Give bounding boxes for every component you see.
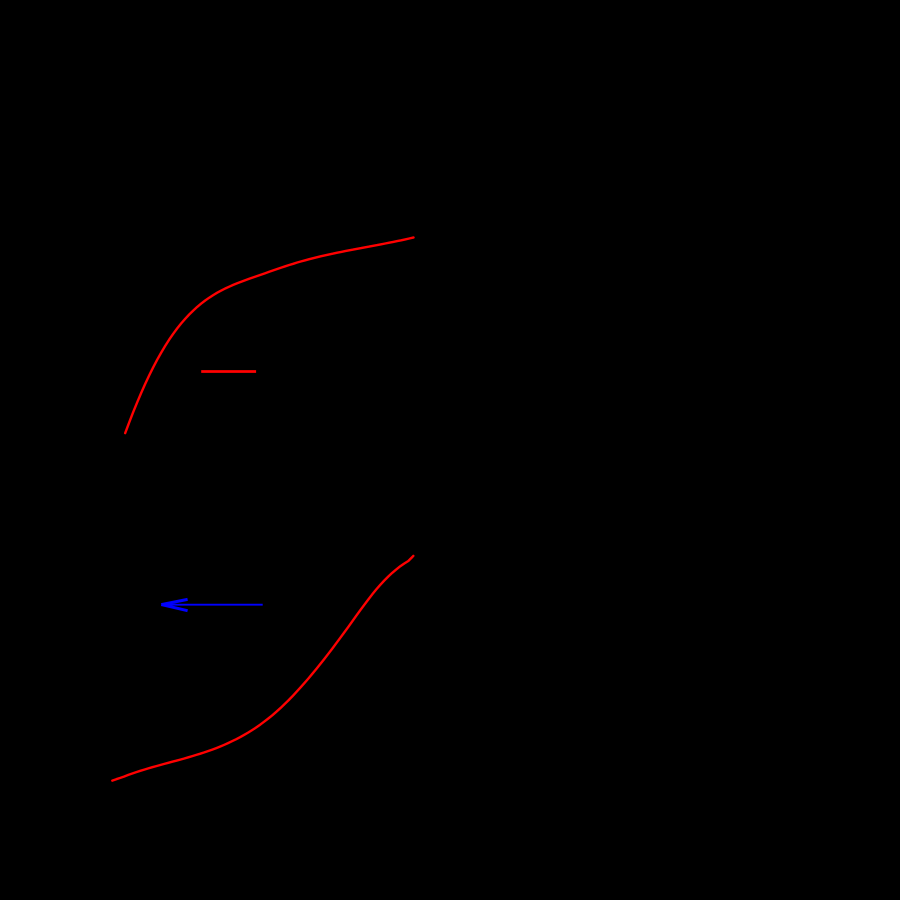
top red hyperbolic curve xyxy=(125,238,413,434)
bottom red sigmoid curve xyxy=(112,556,413,781)
legend line sample (red) xyxy=(201,370,256,373)
blue arrow upper barb xyxy=(161,599,187,604)
blue arrow shaft xyxy=(162,604,263,606)
blue arrow lower barb xyxy=(161,605,187,611)
